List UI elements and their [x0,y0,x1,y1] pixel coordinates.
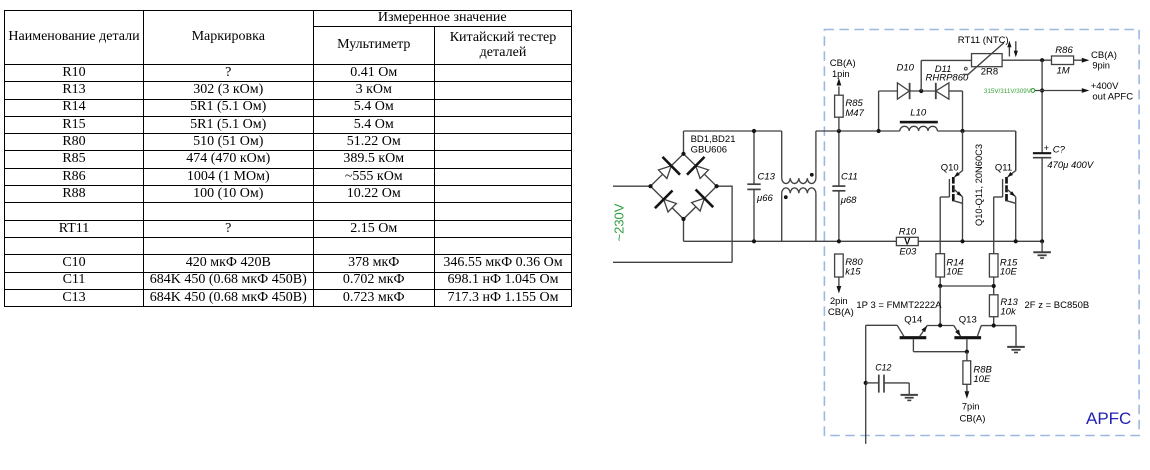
svg-text:2R8: 2R8 [981,67,998,78]
svg-text:APFC: APFC [1086,409,1131,428]
svg-text:μ68: μ68 [840,195,857,206]
svg-text:2pin: 2pin [830,296,848,306]
svg-text:Q10-Q11, 20N60C3: Q10-Q11, 20N60C3 [974,144,984,226]
svg-text:10E: 10E [973,374,991,385]
svg-text:1M: 1M [1057,65,1070,76]
svg-text:470μ 400V: 470μ 400V [1047,160,1095,171]
svg-text:10E: 10E [1000,267,1018,278]
svg-text:M47: M47 [845,108,864,119]
svg-text:1pin: 1pin [832,69,850,79]
svg-text:Q14: Q14 [904,314,922,325]
svg-text:10k: 10k [1000,306,1017,317]
svg-text:out APFC: out APFC [1092,91,1133,102]
svg-text:315V/311V/309V: 315V/311V/309V [984,88,1032,95]
svg-text:BD1,BD21: BD1,BD21 [691,134,736,145]
svg-text:GBU606: GBU606 [691,145,727,156]
svg-text:C13: C13 [758,172,776,183]
svg-text:7pin: 7pin [962,401,980,411]
svg-text:RHRP860: RHRP860 [926,72,969,83]
svg-text:C12: C12 [875,363,891,373]
svg-text:V: V [904,237,910,247]
svg-text:C11: C11 [841,172,858,183]
svg-text:1P 3 = FMMT2222A: 1P 3 = FMMT2222A [856,300,942,311]
svg-text:D10: D10 [897,63,915,74]
svg-text:Q10: Q10 [941,163,959,174]
svg-text:E03: E03 [899,246,917,257]
svg-text:9pin: 9pin [1092,61,1110,71]
svg-text:CB(A): CB(A) [1091,50,1117,61]
svg-text:Q13: Q13 [959,314,977,325]
svg-text:2F z = BC850B: 2F z = BC850B [1025,300,1090,311]
svg-text:+: + [1044,143,1049,153]
svg-text:CB(A): CB(A) [960,414,986,425]
svg-text:RT11 (NTC): RT11 (NTC) [958,35,1009,46]
svg-text:μ66: μ66 [756,193,773,204]
svg-text:10E: 10E [946,267,964,278]
svg-text:k15: k15 [845,266,861,277]
svg-text:L10: L10 [910,108,927,119]
svg-text:C?: C? [1053,144,1066,155]
svg-text:CB(A): CB(A) [828,307,854,318]
svg-text:R86: R86 [1055,45,1073,56]
svg-text:~230V: ~230V [612,203,627,241]
svg-text:Q11: Q11 [995,163,1012,174]
svg-text:R10: R10 [899,226,917,237]
svg-text:CB(A): CB(A) [830,58,856,69]
